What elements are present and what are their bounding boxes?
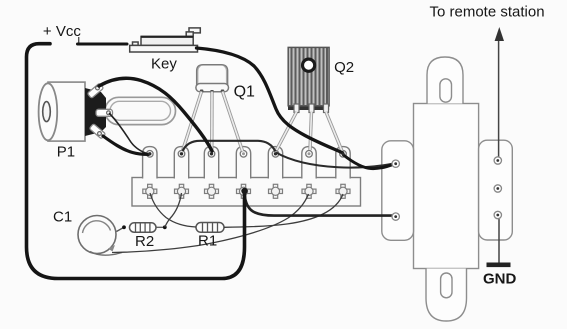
- svg-text:+ Vcc: + Vcc: [43, 23, 81, 40]
- svg-text:Q2: Q2: [334, 59, 354, 76]
- svg-text:C1: C1: [53, 209, 72, 226]
- svg-text:P1: P1: [57, 144, 75, 161]
- svg-text:GND: GND: [483, 270, 517, 287]
- svg-text:R1: R1: [198, 233, 217, 250]
- svg-text:R2: R2: [135, 233, 154, 250]
- svg-text:Key: Key: [151, 56, 177, 73]
- svg-text:Q1: Q1: [234, 84, 255, 101]
- svg-text:To remote station: To remote station: [430, 4, 545, 21]
